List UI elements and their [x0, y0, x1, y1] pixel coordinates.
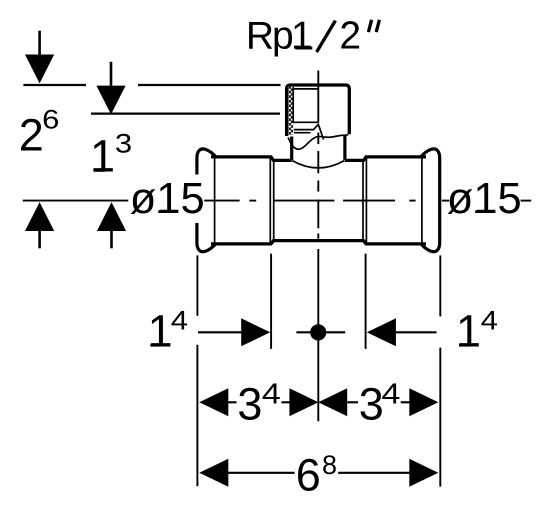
- svg-text:3: 3: [237, 378, 262, 429]
- svg-text:2: 2: [19, 109, 44, 160]
- svg-text:6: 6: [42, 106, 59, 136]
- svg-text:4: 4: [171, 306, 188, 336]
- svg-text:3: 3: [115, 129, 132, 159]
- svg-text:1: 1: [148, 306, 173, 357]
- svg-text:1: 1: [90, 131, 115, 182]
- svg-text:3: 3: [359, 378, 384, 429]
- svg-text:R: R: [246, 14, 274, 57]
- svg-text:1: 1: [456, 306, 481, 357]
- svg-text:ø15: ø15: [447, 175, 522, 223]
- svg-text:1: 1: [291, 14, 313, 57]
- svg-text:4: 4: [381, 377, 400, 410]
- svg-text:8: 8: [322, 450, 337, 480]
- svg-text:4: 4: [481, 306, 498, 336]
- svg-text:ø15: ø15: [130, 175, 205, 223]
- svg-text:6: 6: [296, 450, 321, 501]
- svg-text:4: 4: [262, 377, 281, 410]
- svg-text:2: 2: [339, 14, 361, 57]
